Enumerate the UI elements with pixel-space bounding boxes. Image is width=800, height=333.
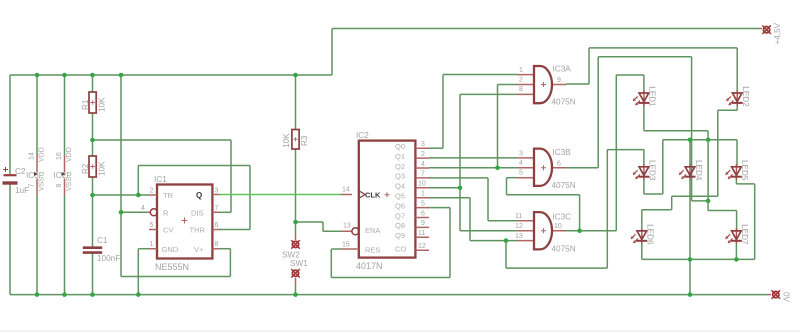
svg-text:GND: GND [162,245,179,254]
wire Q3 drop [487,178,489,221]
gate IC3B 4075N [517,148,576,190]
junction cathode bus / ground riser [688,257,693,262]
wire LED5 cathode [735,179,737,184]
wire rail step up [331,29,333,76]
LED LED4 [679,160,703,181]
wire Q5 out [429,197,470,199]
svg-text:IC3B: IC3B [553,148,572,157]
svg-text:R: R [163,208,169,217]
junction R3 / ENA / SW2 node [293,220,298,225]
svg-text:R1: R1 [81,99,90,110]
wire Q4 drop to IC3C pin12 [459,188,461,231]
wire Q4 out [429,187,460,189]
capacitor C1 (100nF) [83,236,120,263]
junction LED7 cathode [734,257,739,262]
svg-text:C2: C2 [15,167,26,176]
wire top +V rail [10,74,332,76]
resistor R1 [81,92,107,113]
wire Q2 riser to IC3A pin2 [497,85,499,168]
svg-text:+4,5V: +4,5V [773,22,782,44]
junction LED4 anode tap [688,138,693,143]
svg-text:Q6: Q6 [395,201,405,210]
svg-text:4075N: 4075N [552,181,576,190]
wire R3 bottom to ENA node [295,149,297,223]
svg-text:7: 7 [421,171,425,178]
IC3P power pins [26,147,46,195]
junction ground rail / SW1 [293,292,298,297]
wire RES pin15 [331,248,341,250]
svg-text:R2: R2 [81,163,90,174]
wire LED3 cathode run [644,193,663,195]
LED LED1 [633,86,657,107]
svg-text:Q5: Q5 [395,192,405,201]
svg-text:CV: CV [163,226,173,235]
svg-text:2: 2 [519,77,523,84]
svg-text:7: 7 [29,184,36,188]
wire THR vertical [249,166,251,230]
svg-text:14: 14 [29,152,36,160]
wire anode line riser from LED3 cathode [662,140,664,194]
wire LED1 anode drop [643,75,645,92]
svg-text:THR: THR [190,226,206,235]
svg-text:VDD: VDD [66,147,73,162]
svg-text:LED2: LED2 [741,86,750,107]
wire IC3B out long drop [691,57,693,201]
svg-text:6: 6 [215,222,219,229]
svg-text:Q3: Q3 [395,172,405,181]
svg-text:10: 10 [418,181,426,188]
wire reset/V+ column [120,75,122,212]
junction VCC rail / IC2P VDD [62,73,67,78]
wire CLK bright [219,194,341,196]
svg-text:13: 13 [343,223,351,230]
svg-text:4: 4 [141,205,145,212]
wire DIS net to pin7 [219,211,231,213]
wire IC2P VSS column [64,196,66,295]
svg-text:3: 3 [519,150,523,157]
wire IC3C out riser [615,75,617,231]
svg-text:TR: TR [163,191,174,200]
wire to LED7 anode [708,210,737,212]
wire IC3B out riser [597,57,599,168]
svg-text:LED5: LED5 [740,160,749,181]
svg-text:Q2: Q2 [395,162,405,171]
junction ground rail / LED riser [688,292,693,297]
wire node to SW2 [295,222,297,233]
wire to IC3C pin11 [488,220,517,222]
wire second anode line [663,139,737,141]
wire SW1 to rail [295,285,297,295]
junction LED1 cathode tap [706,138,711,143]
svg-text:10K: 10K [98,97,107,112]
junction ground rail / IC3P VSS [35,292,40,297]
wire ground riser [689,259,691,294]
svg-text:10: 10 [554,223,562,230]
svg-text:9: 9 [421,220,425,227]
wire C1 bottom to rail [92,253,94,295]
svg-text:LED1: LED1 [648,86,657,107]
svg-text:IC3P: IC3P [26,171,45,180]
wire R1 bottom to node [92,113,94,156]
svg-text:VDD: VDD [39,147,46,162]
junction IC3C output node [577,228,582,233]
svg-text:IC3A: IC3A [553,65,572,74]
svg-text:5: 5 [150,222,154,229]
svg-text:11: 11 [515,213,522,220]
wire V+ bottom horizontal [121,276,230,278]
svg-text:Q0: Q0 [395,142,405,151]
wire run to LED6 riser [672,195,718,197]
wire Q5 drop [469,198,471,241]
wire IC3A out to LED2 [589,47,737,49]
junction VCC rail / IC3P VDD [35,73,40,78]
wire ENA node to jog [296,221,324,223]
junction TR-THR node [136,193,141,198]
pin stubs 555 left [149,195,157,249]
junction R2-C1 / TR node [90,193,95,198]
svg-text:12: 12 [418,243,426,250]
wire bottom run to LED3 feed [506,267,607,269]
svg-text:IC2: IC2 [356,131,369,140]
wire THR riser [137,166,139,196]
svg-text:8: 8 [56,184,63,188]
wire LED5 anode drop [736,140,738,166]
wire Q2 to IC3B pin4 [429,167,517,169]
wire Q3 out [429,177,488,179]
svg-text:3: 3 [421,141,425,148]
wire IC2P VDD column [64,75,66,155]
svg-text:1uF: 1uF [15,186,29,195]
wire bottom 0V rail [10,294,768,296]
junction Q4 branch [458,186,463,191]
wire drop to anode line [707,131,709,140]
wire LED6 riser [671,196,673,210]
svg-text:5: 5 [421,200,425,207]
wire to +4.5V pad [332,28,759,30]
wire IC3C output run [566,230,616,232]
wire to IC3A pin1 [443,74,517,76]
wire IC3P VDD column [36,75,38,155]
wire RES riser to Q6 [449,208,451,278]
IC2 4017N box [341,131,429,271]
wire LED6 anode run [642,209,672,211]
wire LED5 cathode jog [736,183,754,185]
svg-text:16: 16 [56,152,63,160]
wire feedback drop to IC3C out [579,195,581,231]
wire Q0 riser [442,75,444,149]
wire LED2 cathode long drop [717,110,719,196]
svg-text:2: 2 [150,188,154,195]
wire R1 top [92,75,94,92]
svg-text:12: 12 [515,223,523,230]
junction IC3B output tap [706,199,711,204]
wire TR net [93,194,150,196]
svg-text:Q7: Q7 [395,211,405,220]
wire LED2 cathode [736,105,738,111]
op-amp U2 / gate IC3A 4075N [517,65,576,107]
wire IC3B pin5 drop [506,178,508,195]
wire LED2 anode drop [736,48,738,92]
wire LED3 anode drop [643,150,645,166]
LED LED5 [726,160,750,181]
svg-text:8: 8 [519,86,523,93]
svg-text:IC2P: IC2P [54,171,73,180]
wire V+ riser [229,249,231,277]
svg-text:1: 1 [150,241,154,248]
bottom window edge [0,331,800,332]
wire ENA jog down [322,222,324,231]
wire LED4 cathode [689,179,691,260]
svg-text:2: 2 [421,151,425,158]
junction Q2 branch [495,166,500,171]
wire IC3A output [566,83,589,85]
svg-text:LED3: LED3 [648,160,657,181]
svg-text:11: 11 [418,230,425,237]
junction ground rail / IC2P VSS [62,292,67,297]
svg-text:8: 8 [215,241,219,248]
svg-text:0V: 0V [782,292,791,303]
wire R3 top [295,75,297,130]
junction ground rail / 555 GND [136,292,141,297]
wire LED6 cathode [641,243,643,260]
svg-text:SW1: SW1 [290,259,308,268]
svg-text:15: 15 [342,242,350,249]
wire LED2 cathode jog [718,109,738,111]
svg-text:CO: CO [395,244,406,253]
svg-text:13: 13 [515,233,523,240]
wire IC3B out top run [598,56,691,58]
pin stubs 555 right [212,195,219,249]
wire LED7 cathode [735,243,737,260]
wire LED5 cathode drop [754,184,756,260]
wire Q6 to riser [429,207,450,209]
svg-text:10K: 10K [282,133,291,148]
svg-text:5: 5 [519,169,523,176]
svg-text:CLK: CLK [365,191,381,200]
pad SW2 [282,233,300,260]
wire LED3 anode horizontal [607,149,644,151]
wire feedback horizontal [507,194,580,196]
wire GND pin1 [138,248,149,250]
wire LED3 feed riser [606,150,608,269]
capacitor C2 (electrolytic 1uF) [3,167,30,195]
wire IC3B output [566,167,598,169]
junction ground rail / C1 [90,292,95,297]
wire LED6 anode drop [641,210,643,230]
gate IC3C 4075N [515,212,576,253]
pin stubs 4017 left [341,195,359,250]
wire Q4 riser to IC3A pin8 [459,94,461,187]
svg-text:Q: Q [196,191,202,200]
resistor R2 [81,156,107,177]
svg-text:7: 7 [215,205,219,212]
junction reset pin node [119,210,124,215]
svg-text:9: 9 [557,77,561,84]
svg-text:Q8: Q8 [395,221,405,230]
junction R1-R2 node [90,138,95,143]
svg-text:4: 4 [519,160,523,167]
svg-text:4075N: 4075N [552,98,576,107]
wire V+ drop [120,212,122,276]
IC2P power pins [54,147,74,195]
svg-text:3: 3 [215,188,219,195]
svg-text:DIS: DIS [191,208,204,217]
wire to IC3A pin8 [460,93,517,95]
wire to IC3A pin2 [498,84,518,86]
svg-text:4075N: 4075N [552,244,576,253]
junction VCC rail / R3 [293,73,298,78]
wire LED1 cathode drop [643,105,645,131]
svg-text:NE555N: NE555N [155,262,189,272]
wire IC3C out top jog [616,74,644,76]
wire IC3P VSS column [36,196,38,295]
svg-text:LED7: LED7 [740,224,749,245]
junction pin13 node [504,238,509,243]
wire LED3 cathode drop [643,179,645,195]
svg-text:6: 6 [557,160,561,167]
svg-text:6: 6 [421,210,425,217]
svg-text:14: 14 [342,187,350,194]
svg-text:4017N: 4017N [356,261,383,271]
svg-text:V+: V+ [194,245,204,254]
svg-text:4: 4 [421,161,425,168]
wire C2 column bottom [9,185,11,295]
svg-text:10K: 10K [98,161,107,176]
pad SW1 [290,259,308,285]
resistor R3 [282,130,309,150]
LED LED3 [633,160,657,181]
wire ENA to pin13 [323,230,341,232]
svg-text:C1: C1 [97,236,108,245]
svg-text:ENA: ENA [365,226,380,235]
wire RES bottom horizontal [331,277,450,279]
wire Q1 to IC3B pin3 [429,157,517,159]
wire R2 bottom to TR node [92,176,94,247]
svg-text:Q1: Q1 [395,152,405,161]
wire LED4 anode drop [689,140,691,166]
svg-text:IC3C: IC3C [553,213,572,222]
junction VCC rail / R1 [90,73,95,78]
supply +4,5V pad [759,22,782,44]
wire IC3A out riser [588,48,590,84]
svg-text:Q9: Q9 [395,231,405,240]
wire LED7 anode drop [736,211,738,230]
svg-text:1: 1 [421,191,425,198]
LED LED6 [631,224,655,245]
svg-text:100nF: 100nF [97,254,120,263]
wire THR to pin6 [219,229,250,231]
svg-text:RES: RES [365,245,380,254]
LED LED7 [726,224,750,245]
LED LED2 [726,86,750,107]
pin stubs 4017 right [415,148,429,250]
wire RES drop [330,249,332,278]
svg-text:IC1: IC1 [154,175,167,184]
wire drop on 708 column [707,140,709,211]
wire pin13 node drop [505,241,507,269]
svg-text:1: 1 [519,67,523,74]
wire V+ to pin8 [219,248,230,250]
wire C2 column top [9,75,11,174]
supply 0V pad [768,290,791,302]
wire reset pin4 horizontal [121,211,147,213]
wire DIS net horizontal [93,139,232,141]
wire to IC3C pin12 [460,230,517,232]
wire LED1 cathode run [644,130,708,132]
wire DIS net vertical [230,140,232,212]
wire THR top horizontal [138,165,250,167]
junction VCC rail / reset column [119,73,124,78]
svg-text:LED6: LED6 [646,224,655,245]
wire GND drop [137,249,139,295]
op-amp U1 / IC1 NE555N box [141,175,220,272]
wire IC3B pin5 stub wire [507,177,518,179]
svg-text:R3: R3 [300,135,309,146]
wire Q0 out [429,147,443,149]
wire cathode bus [642,258,755,260]
wire IC3B out jog right [692,200,709,202]
svg-text:Q4: Q4 [395,182,405,191]
svg-text:LED4: LED4 [694,160,703,181]
wire to IC3C pin13 [470,240,517,242]
